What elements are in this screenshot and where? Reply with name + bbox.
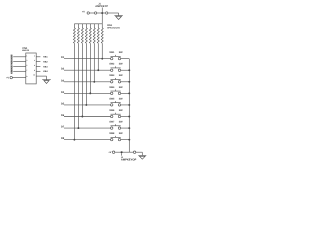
wire row D1	[64, 58, 111, 60]
wire SW1 to common	[121, 58, 130, 60]
wire column 1 to row D8	[73, 43, 75, 139]
wire J1 pin to RN1 rail	[101, 8, 103, 24]
svg-text:KB8: KB8	[10, 68, 13, 73]
svg-text:SW7: SW7	[109, 120, 115, 123]
switch SW4	[109, 86, 123, 95]
svg-text:2: 2	[34, 54, 35, 57]
wire row D2	[64, 69, 111, 71]
svg-text:+V: +V	[6, 77, 9, 80]
connector J2	[108, 151, 142, 162]
ground (CN1)	[42, 76, 51, 83]
switch SW7	[109, 120, 123, 129]
ground (top right)	[114, 13, 122, 20]
switch SW8	[109, 132, 123, 141]
wire column 2 to row D7	[77, 43, 79, 128]
svg-text:9: 9	[26, 75, 27, 78]
junction SW4 / common	[128, 92, 130, 94]
pin 3 CN1 left KB6	[10, 59, 27, 64]
wire row D3	[64, 81, 111, 83]
svg-text:+V: +V	[82, 10, 85, 13]
svg-text:SW6: SW6	[109, 109, 115, 112]
svg-text:SW: SW	[119, 120, 124, 123]
pin 5 CN1 left KB7	[10, 64, 27, 69]
junction SW6 / common	[128, 116, 130, 118]
svg-text:SW: SW	[119, 63, 124, 66]
pin 9 CN1 +V	[6, 75, 27, 79]
resistor RN1 element 7	[97, 24, 99, 44]
svg-text:KB7: KB7	[10, 64, 13, 69]
wire SW5 to common	[121, 104, 130, 106]
resistor RN1 element 6	[93, 24, 95, 44]
junction SW8 / common	[128, 139, 130, 141]
svg-text:3: 3	[26, 59, 27, 62]
svg-text:10: 10	[33, 74, 35, 77]
resistor RN1 element 3	[81, 24, 83, 44]
junction col 1 / row D8	[73, 139, 75, 141]
junction col 6 / row D3	[93, 81, 95, 83]
svg-text:KB3: KB3	[43, 65, 48, 68]
svg-text:6: 6	[34, 64, 35, 67]
switch SW1	[109, 51, 123, 60]
svg-text:SW: SW	[119, 132, 124, 135]
wire row D7	[64, 127, 111, 129]
wire SW4 to common	[121, 92, 130, 94]
junction col 4 / row D5	[85, 104, 87, 106]
wire SW3 to common	[121, 81, 130, 83]
switch SW3	[109, 74, 123, 83]
junction SW2 / common	[128, 69, 130, 71]
wire SW8 to common	[121, 139, 130, 141]
ground (bottom right)	[138, 152, 146, 159]
wire row D8	[64, 139, 111, 141]
resistor RN1 element 5	[89, 24, 91, 44]
svg-text:8: 8	[34, 69, 35, 72]
wire column 6 to row D3	[93, 43, 95, 81]
wire column 4 to row D5	[85, 43, 87, 105]
IC CN1 body	[26, 53, 36, 84]
connector J1	[82, 2, 119, 14]
svg-text:SW: SW	[119, 97, 124, 100]
IC CN1 label	[22, 47, 29, 52]
wire SW6 to common	[121, 116, 130, 118]
resistor RN1 element 8	[101, 24, 103, 44]
junction col 7 / row D2	[97, 69, 99, 71]
svg-text:1: 1	[26, 54, 27, 57]
junction SW5 / common	[128, 104, 130, 106]
junction SW7 / common	[128, 127, 130, 129]
resistor RN1 element 4	[85, 24, 87, 44]
wire RN1 common rail	[74, 23, 102, 25]
svg-text:SW4: SW4	[109, 86, 115, 89]
svg-text:8PIN DUSA/S: 8PIN DUSA/S	[107, 27, 120, 30]
svg-text:SW: SW	[119, 109, 124, 112]
svg-text:KB6: KB6	[10, 59, 13, 64]
svg-text:4: 4	[34, 59, 35, 62]
svg-text:SW: SW	[119, 86, 124, 89]
wire switch common down to J2	[128, 59, 130, 153]
svg-text:SW5: SW5	[109, 97, 115, 100]
svg-text:BH10S: BH10S	[22, 49, 29, 52]
junction col 5 / row D4	[89, 92, 91, 94]
wire column 7 to row D2	[97, 43, 99, 70]
pin 1 CN1 left KB5	[10, 54, 27, 59]
switch SW6	[109, 109, 123, 118]
pin 2 CN1 right D1	[34, 54, 48, 58]
wire row D6	[64, 116, 111, 118]
junction SW3 / common	[128, 81, 130, 83]
svg-text:5: 5	[26, 64, 27, 67]
junction col 8 / row D1	[101, 58, 103, 60]
pin 6 CN1 right D3	[34, 64, 48, 68]
svg-text:SW: SW	[119, 51, 124, 54]
svg-text:KB2: KB2	[43, 61, 48, 64]
wire column 3 to row D6	[81, 43, 83, 116]
wire row D5	[64, 104, 111, 106]
svg-text:AMPKEYOP: AMPKEYOP	[121, 159, 137, 162]
pin 10 CN1 gnd	[33, 74, 46, 77]
wire row D4	[64, 92, 111, 94]
wire column 8 to row D1	[101, 43, 103, 58]
svg-text:KB1: KB1	[43, 56, 48, 59]
svg-text:AMPKEYP: AMPKEYP	[95, 5, 108, 8]
svg-text:KB5: KB5	[10, 54, 13, 59]
switch SW5	[109, 97, 123, 106]
wire column 5 to row D4	[89, 43, 91, 93]
resistor network RN1 label	[107, 24, 120, 30]
svg-text:7: 7	[26, 69, 27, 72]
svg-text:KB4: KB4	[43, 70, 48, 73]
svg-text:SW: SW	[119, 74, 124, 77]
wire SW2 to common	[121, 69, 130, 71]
pin 4 CN1 right D2	[34, 59, 48, 63]
pin 7 CN1 left KB8	[10, 68, 27, 73]
switch SW2	[109, 63, 123, 72]
resistor RN1 element 1	[73, 24, 75, 44]
svg-text:SW1: SW1	[109, 51, 115, 54]
svg-text:SW8: SW8	[109, 132, 115, 135]
svg-text:SW2: SW2	[109, 63, 115, 66]
svg-text:+V: +V	[108, 151, 111, 154]
wire SW7 to common	[121, 127, 130, 129]
resistor RN1 element 2	[77, 24, 79, 44]
pin 8 CN1 right D4	[34, 69, 48, 73]
junction col 2 / row D7	[77, 127, 79, 129]
svg-text:SW3: SW3	[109, 74, 115, 77]
junction col 3 / row D6	[81, 116, 83, 118]
